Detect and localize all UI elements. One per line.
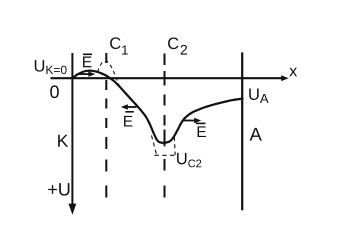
- label C1: [110, 37, 128, 54]
- label E3 with overbar: [196, 123, 206, 137]
- grid C1 dashed line: [105, 53, 107, 198]
- E field arrow 1 (near cathode, pointing right): [76, 71, 95, 76]
- origin label 0: [50, 85, 59, 98]
- dashed depth marker bottom: [155, 154, 177, 156]
- x axis: [51, 75, 289, 81]
- U axis (vertical, arrow down): [69, 53, 77, 215]
- +U axis label: [48, 183, 69, 196]
- label U_A: [249, 88, 268, 103]
- dashed depth marker right side: [173, 137, 176, 155]
- label U_C2: [177, 153, 201, 167]
- dashed auxiliary curve at C1: [97, 61, 120, 87]
- E field arrow 2 (left of minimum, pointing left): [121, 104, 137, 109]
- anode line A: [241, 52, 243, 210]
- label U_K=0: [35, 60, 67, 74]
- label A (anode): [250, 128, 262, 141]
- label E1 with overbar: [83, 54, 92, 67]
- label K (cathode): [58, 135, 68, 147]
- potential curve: [72, 71, 242, 143]
- grid C2 dashed line: [164, 54, 166, 198]
- dashed depth marker left side: [152, 136, 157, 155]
- E field arrow 3 (right of minimum, pointing right): [183, 118, 201, 123]
- label E2 with overbar: [124, 112, 134, 127]
- x axis label x: [289, 68, 297, 76]
- label C2: [168, 37, 187, 54]
